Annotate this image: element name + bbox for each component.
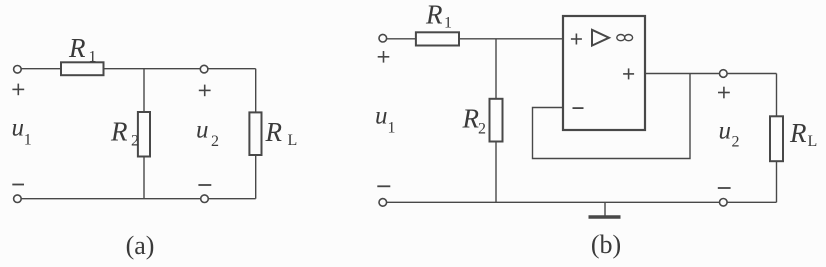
polarity - at (a) output [198,184,211,186]
polarity + at (a) input [12,88,24,90]
svg-text:2: 2 [131,133,139,150]
wire: (a) top rail [20,68,256,70]
op-amp output + [623,73,634,75]
svg-text:1: 1 [24,132,32,149]
node: (a) input terminal bottom [14,195,22,203]
svg-text:(a): (a) [126,231,155,260]
svg-text:u: u [12,115,25,142]
svg-text:R: R [462,104,480,134]
node: (b) input terminal bottom [379,199,387,207]
resistor R1 (a) [61,62,104,75]
polarity + at (a) output [199,89,211,91]
node: (b) output terminal top [720,70,728,78]
svg-text:2: 2 [478,121,486,138]
svg-text:R: R [425,0,443,29]
node: (b) output terminal bottom [720,199,728,207]
polarity - at (b) output [718,187,731,189]
svg-text:R: R [789,118,807,148]
wire: (b) top rail input to op-amp [386,38,563,40]
op-amp triangle gain symbol [592,30,609,46]
svg-text:2: 2 [211,133,219,150]
svg-text:1: 1 [444,15,452,32]
op-amp noninverting input + [571,38,582,40]
resistor RL (a) [249,112,261,155]
svg-text:R: R [265,117,283,147]
svg-text:R: R [110,117,128,147]
wire: (a) node A vertical to R2 [143,69,145,112]
node: (a) input terminal [14,66,22,74]
op-amp inverting input - [573,107,584,109]
svg-text:1: 1 [89,49,97,66]
wire: (b) right vertical to RL top [776,74,778,117]
op-amp infinity gain mark [617,35,625,41]
polarity + at (b) input [378,56,390,58]
wire: (b) R2 bottom to rail [495,142,497,203]
resistor R2 (a) [138,112,150,157]
ground [604,202,606,215]
svg-text:(b): (b) [591,230,621,259]
svg-text:R: R [68,33,86,63]
polarity - at (b) input [377,185,390,187]
wire: (b) node vertical to R2 [495,39,497,99]
wire: (a) RL bottom to rail [255,155,257,199]
resistor RL (b) [770,116,783,161]
resistor R1 (b) [416,32,459,45]
wire: (a) R2 bottom to rail [143,157,145,199]
svg-text:L: L [288,132,298,149]
node: (b) input terminal [379,34,387,42]
resistor R2 (b) [490,99,503,142]
svg-text:L: L [808,133,818,150]
polarity + at (b) output [718,92,730,94]
wire: (a) right vertical to RL top [255,69,257,113]
wire: (b) bottom rail [383,201,777,203]
wire: (a) bottom rail [17,198,255,200]
svg-text:u: u [719,118,732,145]
svg-text:u: u [196,117,209,144]
svg-text:u: u [375,103,388,130]
svg-text:2: 2 [732,134,740,151]
wire: (b) feedback loop from output to inverting input [533,74,691,159]
node: (a) output terminal bottom [201,195,209,203]
node: (a) output terminal top [200,65,208,73]
wire: (b) RL bottom to rail [776,161,778,202]
wire: (b) output of op-amp [645,73,777,75]
op-amp U1 body [563,16,645,130]
svg-text:1: 1 [388,119,396,136]
polarity - at (a) input [12,184,24,186]
